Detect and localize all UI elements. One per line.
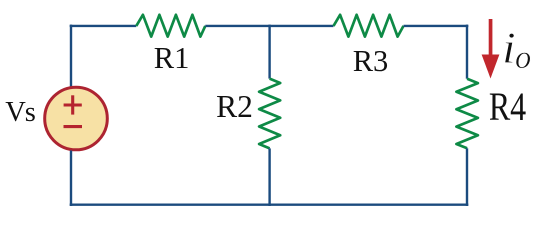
- wire middle vertical lower: [268, 148, 270, 206]
- wire bottom segment: [70, 203, 469, 205]
- svg-text:R3: R3: [353, 44, 389, 78]
- wire middle vertical upper: [268, 25, 270, 79]
- resistor R4: [456, 79, 478, 149]
- wire left vertical upper: [70, 25, 72, 87]
- wire top-left segment: [70, 25, 137, 27]
- label io: [502, 24, 531, 76]
- voltage source Vs: [45, 87, 108, 150]
- wire left vertical lower: [70, 151, 72, 207]
- wire top-right segment: [404, 25, 469, 27]
- current arrow io: [482, 19, 500, 79]
- label R4: [489, 85, 526, 129]
- svg-text:Vs: Vs: [5, 97, 36, 128]
- resistor R3: [334, 15, 404, 37]
- minus symbol: [64, 125, 83, 128]
- svg-text:i: i: [502, 24, 516, 73]
- plus symbol: [64, 95, 82, 114]
- resistor R2: [259, 79, 280, 149]
- wire right vertical lower: [466, 148, 468, 206]
- svg-text:R4: R4: [489, 85, 526, 129]
- svg-text:R1: R1: [154, 41, 190, 75]
- wire top-middle segment: [205, 25, 333, 27]
- svg-text:R2: R2: [216, 89, 253, 124]
- resistor R1: [136, 15, 205, 37]
- svg-text:o: o: [515, 40, 531, 76]
- wire right vertical upper: [466, 25, 468, 79]
